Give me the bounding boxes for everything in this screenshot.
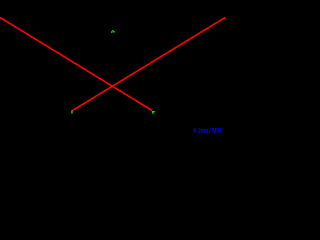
svg-text:X Jma / MW': X Jma / MW' xyxy=(193,126,223,135)
